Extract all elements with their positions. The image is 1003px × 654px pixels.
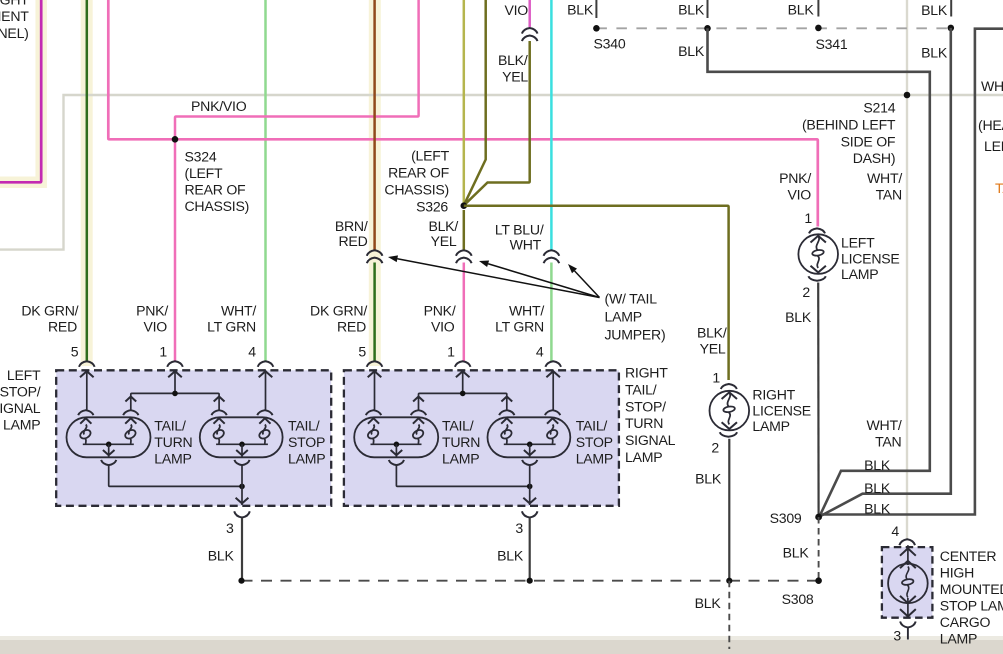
label S340 <box>594 36 626 52</box>
svg-text:LAMP: LAMP <box>442 451 479 467</box>
label WHT/LT GRN left <box>207 303 256 335</box>
svg-text:BLK: BLK <box>783 545 810 561</box>
wire DK GRN/RED left (to left lamp pin 5) <box>86 0 89 361</box>
filament coil right lamp <box>411 418 424 443</box>
highlight mark on magenta wire <box>0 0 41 182</box>
svg-text:CARGO: CARGO <box>940 614 991 630</box>
label 3 right lamp <box>515 520 523 536</box>
svg-text:PNK/: PNK/ <box>779 170 811 186</box>
bulb contact arc b1 right right lamp <box>411 410 426 415</box>
svg-text:LT GRN: LT GRN <box>207 318 256 334</box>
pin number 4 left lamp <box>248 344 256 360</box>
wire BLK stub S340 left <box>595 0 597 18</box>
exit connector arcs left lamp <box>234 511 250 517</box>
splice S309 dot <box>815 514 822 521</box>
svg-text:BLK/: BLK/ <box>428 218 458 234</box>
wire LT BLU/WHT from top <box>550 0 553 250</box>
splice S214 dot <box>904 92 911 99</box>
label BLK top3 <box>678 43 705 59</box>
svg-text:TURN: TURN <box>154 434 192 450</box>
svg-text:DK GRN/: DK GRN/ <box>310 303 367 319</box>
svg-text:TURN: TURN <box>442 434 480 450</box>
connector left license pin2 <box>808 276 825 281</box>
svg-text:5: 5 <box>71 344 79 360</box>
pin 4 lead right lamp <box>546 370 560 410</box>
svg-text:CHASSIS): CHASSIS) <box>185 198 250 214</box>
svg-text:TAN: TAN <box>875 433 901 449</box>
bulb contact arc b1 left left lamp <box>78 410 93 415</box>
wire BLK stub S341 right <box>950 0 952 17</box>
tail feed bus right lamp <box>413 393 512 411</box>
wire BRN/RED from top <box>373 0 376 250</box>
wire WHT/LT GRN left (to left lamp pin 4) <box>264 0 267 361</box>
highlight mark on left DKGRN column <box>81 0 93 366</box>
label BLK left license <box>785 309 812 325</box>
svg-text:LAMP: LAMP <box>576 451 613 467</box>
ground junction dot left lamp <box>239 484 245 490</box>
label LEF right edge <box>984 138 1003 154</box>
bulb circle CHMSL <box>888 564 928 604</box>
splice S340 right dot <box>704 25 711 32</box>
wire dashed ground bus top <box>596 27 950 29</box>
svg-text:STOP: STOP <box>288 434 325 450</box>
bulb filament left license lamp <box>812 236 824 268</box>
tail feed junction dot left lamp <box>172 391 178 397</box>
connector left license pin1 <box>809 228 825 233</box>
svg-text:S308: S308 <box>782 591 814 607</box>
svg-text:(LEFT: (LEFT <box>411 148 450 164</box>
label RIGHT TAIL/STOP/TURN SIGNAL LAMP <box>625 365 676 466</box>
label instrument panel cut text <box>0 0 29 41</box>
svg-text:TAIL/: TAIL/ <box>576 418 608 434</box>
bulb circle left license lamp <box>798 234 838 274</box>
svg-text:1: 1 <box>447 344 455 360</box>
svg-text:LEFT: LEFT <box>841 235 875 251</box>
CHMSL bottom arrows <box>900 596 916 618</box>
box outline left lamp <box>56 370 331 506</box>
svg-text:RIGHT: RIGHT <box>752 387 795 403</box>
label TAIL/TURN LAMP left lamp <box>154 418 192 467</box>
label TAIL/STOP LAMP left lamp <box>288 418 325 467</box>
callout arrows tail lamp jumper <box>388 255 600 297</box>
svg-text:LAMP: LAMP <box>752 418 789 434</box>
svg-text:PNK/VIO: PNK/VIO <box>191 98 247 114</box>
svg-text:RIGHT: RIGHT <box>625 365 668 381</box>
splice S326 dot <box>461 202 468 209</box>
highlight mark on BRN-DKGRN column <box>369 0 381 366</box>
svg-text:BLK: BLK <box>785 309 812 325</box>
svg-text:WHT/: WHT/ <box>867 170 902 186</box>
pin number 1 left lamp <box>159 344 167 360</box>
svg-text:MOUNTED: MOUNTED <box>940 581 1003 597</box>
label BLK top4 <box>788 2 815 18</box>
label S308 <box>782 591 814 607</box>
wire WHT/TAN vertical to CHMSL <box>906 0 908 539</box>
bulb top arrow right license lamp <box>722 392 737 399</box>
pin 5 lead right lamp <box>368 370 382 410</box>
svg-text:1: 1 <box>159 344 167 360</box>
svg-text:BLK: BLK <box>921 2 948 18</box>
connector CHMSL pin3 <box>900 622 916 640</box>
label 1 right license <box>712 370 720 386</box>
svg-text:BLK: BLK <box>921 45 948 61</box>
label BLK right license <box>695 471 722 487</box>
wire jumper PNK to right pin1 <box>463 210 466 361</box>
svg-text:BLK: BLK <box>864 457 891 473</box>
wire BLK S340 to S309 <box>708 28 930 516</box>
label BLK/YEL top <box>498 52 528 85</box>
svg-text:BLK/: BLK/ <box>697 324 727 340</box>
pin 1 lead left lamp <box>168 370 182 393</box>
bulb bottom arrow right license lamp <box>722 422 737 429</box>
bulb2 common bar left lamp <box>216 442 268 457</box>
label BLK top1 <box>567 2 594 18</box>
svg-text:BLK: BLK <box>864 501 891 517</box>
svg-text:WHT/: WHT/ <box>866 417 901 433</box>
wire WHT gray elbow left <box>0 95 1003 250</box>
page background bottom band <box>0 636 1003 654</box>
pin number 5 left lamp <box>71 344 79 360</box>
svg-text:LAMP: LAMP <box>3 416 40 432</box>
connector CHMSL pin4 <box>899 539 915 545</box>
svg-text:BLK: BLK <box>788 2 815 18</box>
wire BLK right edge to S309 <box>819 29 1003 517</box>
svg-text:LAMP: LAMP <box>605 309 642 325</box>
bulb contact arc b2 right left lamp <box>257 410 272 415</box>
connector right license pin1 <box>721 384 737 389</box>
svg-text:LICENSE: LICENSE <box>752 402 811 418</box>
label PNK/VIO right <box>424 303 456 335</box>
label VIO <box>504 2 528 18</box>
wire PNK/VIO riser <box>175 0 419 361</box>
svg-text:TA: TA <box>995 180 1003 196</box>
tail feed junction dot right lamp <box>460 391 466 397</box>
box outline right lamp <box>344 370 619 506</box>
tail feed bus left lamp <box>125 393 224 411</box>
bulb contact arc b2 left right lamp <box>499 410 514 415</box>
svg-text:LAMP: LAMP <box>940 630 977 646</box>
wire BLK/YEL from connector to S326 <box>465 41 530 205</box>
label BLK right lamp <box>497 547 524 563</box>
svg-text:LT BLU/: LT BLU/ <box>495 221 544 237</box>
filament coil right lamp <box>366 418 379 443</box>
svg-text:BLK: BLK <box>208 547 235 563</box>
exit connector arcs right lamp <box>522 511 538 517</box>
svg-text:YEL: YEL <box>700 341 726 357</box>
filament coil left lamp <box>212 418 225 443</box>
bulb2 exit cup arc right lamp <box>522 460 537 465</box>
label 3 left lamp <box>226 520 234 536</box>
label TAIL/TURN LAMP right lamp <box>442 418 480 467</box>
label PNK/VIO license <box>779 170 811 203</box>
svg-text:(HEAD: (HEAD <box>978 117 1003 133</box>
label 4 CHMSL <box>891 523 899 539</box>
bulb1 exit cup arc left lamp <box>101 460 116 465</box>
svg-text:VIO: VIO <box>431 318 455 334</box>
svg-text:STOP LAMP/: STOP LAMP/ <box>940 597 1003 613</box>
splice dot bus mid <box>527 578 533 584</box>
ground exit lead right lamp <box>523 465 536 505</box>
bulb TAIL/TURN oval left lamp <box>67 417 151 457</box>
connector pin 5 left lamp <box>79 361 95 367</box>
label WHT/LT GRN right <box>495 303 544 335</box>
pin number 4 right lamp <box>536 344 544 360</box>
label S326 block <box>384 148 449 215</box>
svg-text:WHT/: WHT/ <box>509 303 544 319</box>
svg-text:S340: S340 <box>594 36 626 52</box>
svg-text:3: 3 <box>515 520 523 536</box>
filament coil right lamp <box>546 418 559 443</box>
label WHT/TAN 2 <box>866 417 901 449</box>
svg-text:TAIL/: TAIL/ <box>154 418 186 434</box>
label BLK right2 <box>864 480 891 496</box>
label BLK S309 drop <box>783 545 810 561</box>
label BLK top2 <box>678 2 705 18</box>
wire PNK/VIO S324 to left license <box>175 139 818 226</box>
connector pin 1 right lamp <box>455 361 471 367</box>
svg-text:REAR OF: REAR OF <box>185 182 247 198</box>
wire dashed drop below bus <box>728 581 730 649</box>
svg-text:MENT: MENT <box>0 8 29 24</box>
svg-text:BLK: BLK <box>864 480 891 496</box>
svg-text:BLK: BLK <box>695 595 722 611</box>
svg-text:LEFT: LEFT <box>7 367 41 383</box>
svg-text:SIDE OF: SIDE OF <box>841 134 896 150</box>
svg-text:TAN: TAN <box>876 187 902 203</box>
bulb contact arc b2 left left lamp <box>212 410 227 415</box>
connector pin 4 right lamp <box>545 361 561 367</box>
label HEA right edge <box>978 117 1003 133</box>
pin number 5 right lamp <box>358 344 366 360</box>
bulb contact arc b1 right left lamp <box>123 410 138 415</box>
label LEFT TAIL/STOP/TURN SIGNAL LAMP <box>0 367 41 432</box>
svg-text:YEL: YEL <box>431 233 457 249</box>
label BLK right1 <box>864 457 891 473</box>
svg-text:LAMP: LAMP <box>154 451 191 467</box>
label TAIL/STOP LAMP right lamp <box>576 418 613 467</box>
svg-text:S326: S326 <box>416 199 448 215</box>
svg-text:JUMPER): JUMPER) <box>605 327 666 343</box>
bulb TAIL/STOP oval right lamp <box>488 417 571 457</box>
label S214 block <box>802 100 896 166</box>
label 2 right license <box>711 440 719 456</box>
bulb filament CHMSL <box>902 567 914 598</box>
svg-text:5: 5 <box>358 344 366 360</box>
pin 1 lead right lamp <box>456 370 470 393</box>
svg-text:LAMP: LAMP <box>625 449 662 465</box>
svg-text:STOP: STOP <box>576 434 613 450</box>
svg-text:1: 1 <box>804 210 812 226</box>
label 3 CHMSL <box>893 628 901 644</box>
wire PNK/VIO from top left <box>108 0 175 139</box>
label S309 <box>770 510 802 526</box>
bulb top arrow left license lamp <box>811 236 826 243</box>
filament coil left lamp <box>124 418 137 443</box>
splice dot bus left <box>238 578 244 584</box>
svg-text:VIO: VIO <box>504 2 528 18</box>
ground exit lead left lamp <box>236 465 249 505</box>
filament coil left lamp <box>258 418 271 443</box>
wire dashed ground bus bottom <box>242 580 819 582</box>
label BLK bottom center <box>695 595 722 611</box>
connector VIO to BLK/YEL <box>522 28 538 41</box>
pin 4 lead left lamp <box>259 370 273 410</box>
label W/ TAIL LAMP JUMPER <box>605 291 666 343</box>
wire jumper DKGRN to right pin5 <box>373 263 376 362</box>
label LT BLU/WHT <box>495 221 544 252</box>
wire BLK S341 to S309 <box>820 28 951 517</box>
label BLK top6 <box>921 45 948 61</box>
label RIGHT LICENSE LAMP <box>752 387 811 435</box>
label orange T right edge <box>995 180 1003 196</box>
svg-text:RED: RED <box>337 318 366 334</box>
svg-text:LAMP: LAMP <box>288 451 325 467</box>
svg-text:TAIL/: TAIL/ <box>625 381 657 397</box>
svg-text:TAIL/STOP/: TAIL/STOP/ <box>0 383 41 399</box>
ground junction dot right lamp <box>527 484 533 490</box>
connector tail lamp jumper LTBLU/WHT->LTGRN <box>544 250 560 263</box>
label DK GRN/RED left <box>21 303 78 335</box>
svg-text:S309: S309 <box>770 510 802 526</box>
svg-text:BLK: BLK <box>567 2 594 18</box>
svg-text:RED: RED <box>338 233 367 249</box>
connector pin 5 right lamp <box>367 361 383 367</box>
label PNK/VIO at S324 <box>191 98 247 114</box>
svg-text:3: 3 <box>893 628 901 644</box>
svg-text:1: 1 <box>712 370 720 386</box>
svg-text:GHT: GHT <box>0 0 29 8</box>
label CENTER HIGH MOUNTED STOP LAMP CARGO LAMP <box>940 548 1003 647</box>
bulb2 exit cup arc left lamp <box>234 460 249 465</box>
svg-text:TURN SIGNAL: TURN SIGNAL <box>0 400 41 416</box>
label S341 <box>816 36 848 52</box>
svg-text:LAMP: LAMP <box>841 266 878 282</box>
label PNK/VIO left <box>136 303 168 335</box>
svg-text:BLK: BLK <box>497 547 524 563</box>
svg-text:HIGH: HIGH <box>940 564 974 580</box>
svg-text:PNK/: PNK/ <box>424 303 456 319</box>
connector pin 1 left lamp <box>167 361 183 367</box>
wire BLK/YEL S326 to right license <box>464 206 729 380</box>
splice S341 right dot <box>948 25 955 32</box>
svg-text:(W/ TAIL: (W/ TAIL <box>605 291 658 307</box>
bulb contact arc b2 right right lamp <box>545 410 560 415</box>
wire BLK left license down <box>817 283 820 517</box>
svg-text:S341: S341 <box>816 36 848 52</box>
connector right license pin2 <box>720 432 737 437</box>
CHMSL lead <box>900 545 916 568</box>
svg-text:4: 4 <box>891 523 899 539</box>
svg-text:BLK/: BLK/ <box>498 52 528 68</box>
svg-text:CHASSIS): CHASSIS) <box>384 182 449 198</box>
wire BLK stub S341 left <box>817 0 819 17</box>
svg-text:TAIL/: TAIL/ <box>442 418 474 434</box>
bulb1 exit cup arc right lamp <box>389 460 404 465</box>
ground link inside right lamp <box>396 465 529 486</box>
bulb TAIL/STOP oval left lamp <box>200 417 283 457</box>
wire jumper LTGRN to right pin4 <box>550 263 553 362</box>
svg-text:YEL: YEL <box>502 69 528 85</box>
svg-text:REAR OF: REAR OF <box>388 165 450 181</box>
wire BLK left lamp ground <box>241 518 243 581</box>
label BLK/YEL right license <box>697 324 727 356</box>
svg-text:LICENSE: LICENSE <box>841 250 900 266</box>
splice S308 dot <box>815 577 822 584</box>
label 1 left license <box>804 210 812 226</box>
svg-text:TURN: TURN <box>625 415 663 431</box>
svg-text:2: 2 <box>711 440 719 456</box>
label BRN/RED <box>335 218 368 249</box>
filament coil right lamp <box>500 418 513 443</box>
wire BLK right lamp ground <box>529 518 531 581</box>
wire LT OLIVE to S326 <box>463 0 466 206</box>
svg-text:VIO: VIO <box>143 318 167 334</box>
label LEFT LICENSE LAMP <box>841 235 900 283</box>
svg-text:SIGNAL: SIGNAL <box>625 432 676 448</box>
ground link inside left lamp <box>109 465 242 486</box>
label BLK top5 <box>921 2 948 18</box>
svg-text:WHT: WHT <box>510 237 542 253</box>
label BLK/YEL jumper <box>428 218 458 249</box>
svg-text:S214: S214 <box>863 100 895 116</box>
bulb bottom arrow left license lamp <box>811 266 826 273</box>
connector tail lamp jumper BLK/YEL->PNK <box>456 250 472 263</box>
svg-text:2: 2 <box>802 284 810 300</box>
svg-text:S324: S324 <box>185 149 217 165</box>
svg-text:LEFT: LEFT <box>984 138 1003 154</box>
svg-text:BLK: BLK <box>695 471 722 487</box>
wire BLK stub S340 right <box>707 0 709 18</box>
filament coil left lamp <box>79 418 92 443</box>
label WHT right edge <box>981 78 1003 94</box>
svg-text:BRN/: BRN/ <box>335 218 368 234</box>
svg-text:DASH): DASH) <box>853 150 896 166</box>
splice S340 left dot <box>593 25 600 32</box>
wire VIO stub top <box>528 0 531 27</box>
bulb1 common bar left lamp <box>83 442 134 457</box>
svg-text:TAIL/: TAIL/ <box>288 418 320 434</box>
bulb1 common bar right lamp <box>371 442 422 457</box>
label S324 block <box>185 149 250 215</box>
wire DK OLIVE 2 to S326 <box>464 0 485 204</box>
splice dot bus license <box>726 578 732 584</box>
label BLK right3 <box>864 501 891 517</box>
svg-text:RED: RED <box>48 318 77 334</box>
splice S341 left dot <box>815 25 822 32</box>
splice S324 dot <box>172 136 179 143</box>
pin number 1 right lamp <box>447 344 455 360</box>
svg-text:PNK/: PNK/ <box>136 303 168 319</box>
wire MAG left feed <box>0 0 41 182</box>
bulb contact arc b1 left right lamp <box>366 410 381 415</box>
svg-text:NEL): NEL) <box>0 25 29 41</box>
svg-text:(LEFT: (LEFT <box>185 165 224 181</box>
svg-text:4: 4 <box>536 344 544 360</box>
connector tail lamp jumper BRN/RED->DKGRN <box>367 250 383 263</box>
svg-text:STOP/: STOP/ <box>625 398 666 414</box>
svg-text:BLK: BLK <box>678 2 705 18</box>
svg-text:4: 4 <box>248 344 256 360</box>
label 2 left license <box>802 284 810 300</box>
bulb filament right license lamp <box>723 393 735 425</box>
svg-text:WHT/: WHT/ <box>221 303 256 319</box>
bulb TAIL/TURN oval right lamp <box>354 417 438 457</box>
svg-text:(BEHIND LEFT: (BEHIND LEFT <box>802 117 896 133</box>
svg-text:BLK: BLK <box>678 43 705 59</box>
pin 5 lead left lamp <box>80 370 94 410</box>
svg-text:VIO: VIO <box>787 187 811 203</box>
box outline CHMSL <box>882 547 933 618</box>
